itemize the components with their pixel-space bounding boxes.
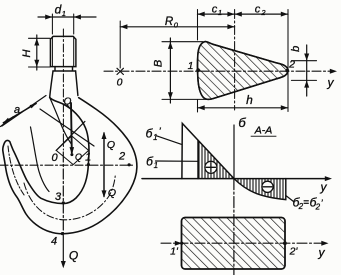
- svg-text:h: h: [246, 93, 253, 107]
- svg-text:1: 1: [153, 133, 157, 142]
- svg-text:=: =: [303, 198, 309, 209]
- svg-text:Q: Q: [64, 97, 72, 108]
- svg-text:R: R: [165, 16, 173, 28]
- svg-text:H: H: [21, 49, 33, 57]
- svg-text:2: 2: [118, 151, 125, 163]
- svg-text:2: 2: [288, 58, 295, 70]
- svg-text:4: 4: [51, 236, 57, 248]
- svg-text:0: 0: [117, 77, 123, 89]
- svg-text:c: c: [255, 4, 261, 16]
- svg-text:c: c: [212, 4, 218, 16]
- svg-text:Q: Q: [107, 139, 115, 151]
- svg-text:d: d: [55, 3, 62, 17]
- svg-text:Q: Q: [69, 249, 78, 263]
- svg-text:2': 2': [289, 246, 299, 258]
- svg-text:2: 2: [260, 8, 266, 17]
- svg-text:0: 0: [51, 152, 58, 164]
- svg-text:1: 1: [188, 60, 194, 72]
- svg-text:3: 3: [55, 191, 62, 203]
- svg-text:1: 1: [62, 9, 66, 18]
- svg-text:1: 1: [85, 152, 91, 164]
- svg-text:Q: Q: [75, 152, 82, 162]
- svg-text:A-A: A-A: [254, 125, 273, 137]
- svg-text:y: y: [320, 180, 328, 194]
- svg-text:y: y: [327, 76, 335, 90]
- svg-text:Q: Q: [108, 187, 116, 199]
- svg-text:2: 2: [315, 203, 321, 212]
- svg-text:y: y: [318, 246, 326, 260]
- svg-text:1': 1': [170, 246, 179, 258]
- svg-text:b: b: [290, 46, 302, 52]
- svg-text:B: B: [153, 60, 165, 67]
- svg-text:1: 1: [154, 161, 158, 170]
- svg-text:1: 1: [218, 8, 222, 17]
- svg-text:б: б: [238, 115, 246, 130]
- svg-text:a: a: [14, 104, 20, 116]
